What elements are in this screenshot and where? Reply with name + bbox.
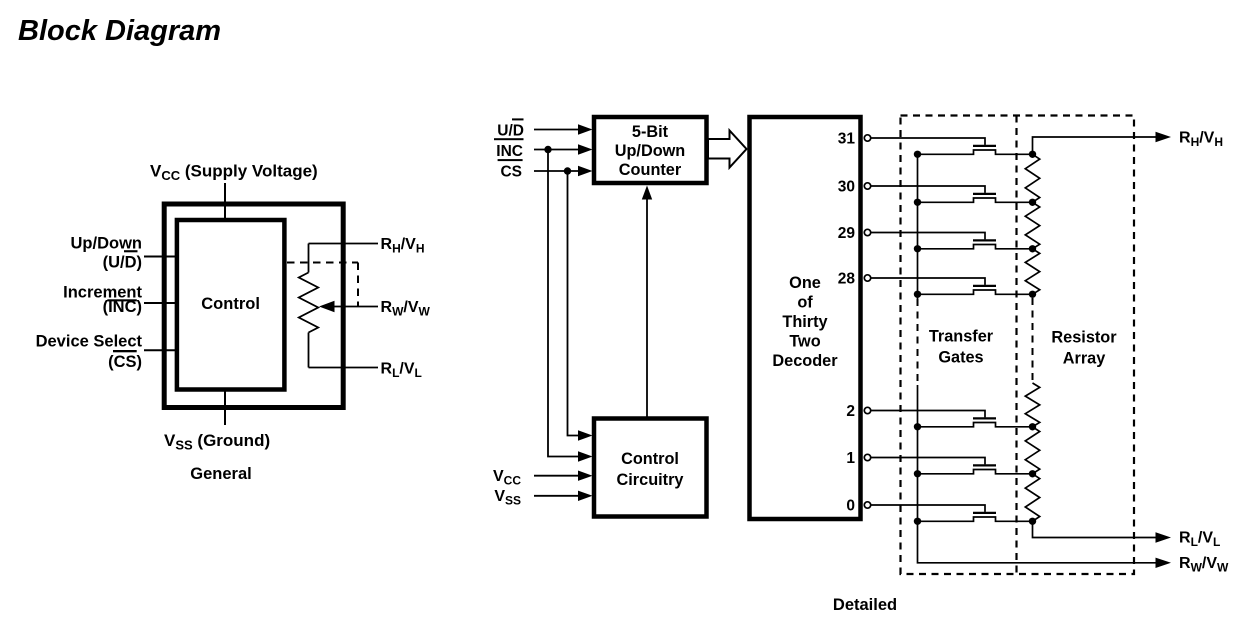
svg-text:Device Select: Device Select xyxy=(36,333,143,351)
5-bit up/down counter box U1 xyxy=(594,117,707,183)
junction dot CS xyxy=(564,167,571,174)
svg-text:Resistor: Resistor xyxy=(1051,329,1117,347)
transfer gate Q0 xyxy=(973,512,996,514)
inner box Control xyxy=(177,220,285,390)
junction dot gate-line 28 xyxy=(914,291,921,298)
Vcc wire xyxy=(534,475,579,477)
svg-text:CS: CS xyxy=(500,164,522,181)
CS pin wire xyxy=(144,349,176,351)
Vss wire xyxy=(534,495,579,497)
U/D wire into counter xyxy=(534,129,579,131)
svg-text:(CS): (CS) xyxy=(108,353,142,371)
junction dot gate-line 30 xyxy=(914,199,921,206)
svg-text:Detailed: Detailed xyxy=(833,596,897,614)
Increment (INC) label xyxy=(63,284,142,317)
svg-text:Two: Two xyxy=(789,333,820,351)
potentiometer resistor (left) xyxy=(308,244,310,273)
control circuitry box U2 xyxy=(594,419,707,517)
transfer gate Q30 xyxy=(973,193,996,195)
svg-text:28: 28 xyxy=(838,271,856,288)
svg-text:INC: INC xyxy=(496,143,523,160)
svg-text:Counter: Counter xyxy=(619,161,682,179)
junction dot resistor tap 2 xyxy=(1029,423,1036,430)
svg-text:30: 30 xyxy=(838,179,855,196)
Transfer Gates label xyxy=(929,328,994,367)
gate control wire 2 xyxy=(871,411,985,418)
junction dot resistor tap 1 xyxy=(1029,470,1036,477)
junction dot resistor tap 30 xyxy=(1029,199,1036,206)
Device Select (CS) label xyxy=(36,333,143,372)
gate control wire 29 xyxy=(871,233,985,240)
INC branch wire to control circuitry xyxy=(548,150,579,457)
RH output wire xyxy=(1033,137,1156,154)
Resistor Array label xyxy=(1051,329,1117,368)
bus arrow counter to decoder xyxy=(708,131,747,168)
svg-text:Up/Down: Up/Down xyxy=(615,142,686,160)
junction dot gate-line 2 xyxy=(914,423,921,430)
svg-text:Gates: Gates xyxy=(938,349,983,367)
svg-text:5-Bit: 5-Bit xyxy=(632,123,669,141)
svg-text:Array: Array xyxy=(1063,350,1106,368)
svg-text:Up/Down: Up/Down xyxy=(71,234,143,252)
gate control wire 30 xyxy=(871,186,985,193)
INC pin wire xyxy=(144,302,176,304)
svg-text:0: 0 xyxy=(846,498,855,515)
svg-text:Circuitry: Circuitry xyxy=(617,471,684,489)
svg-text:of: of xyxy=(797,294,813,312)
CS branch wire to control circuitry xyxy=(568,171,580,436)
dashed divider xyxy=(1015,116,1017,575)
junction dot resistor tap 31 xyxy=(1029,151,1036,158)
transfer gate Q2 xyxy=(973,417,996,419)
transfer gate Q1 xyxy=(973,464,996,466)
CS wire into counter xyxy=(534,170,579,172)
resistor array continuation (dashed) xyxy=(1032,298,1034,381)
svg-text:Block Diagram: Block Diagram xyxy=(18,15,221,47)
svg-text:Transfer: Transfer xyxy=(929,328,994,346)
dashed wiper control link xyxy=(287,263,358,307)
RL output wire xyxy=(1033,521,1156,537)
junction dot resistor tap 28 xyxy=(1029,291,1036,298)
svg-text:Control: Control xyxy=(201,295,260,313)
gate control wire 28 xyxy=(871,278,985,285)
Vss pin wire xyxy=(224,390,226,425)
junction dot gate-line 31 xyxy=(914,151,921,158)
Up/Down (U/D) label xyxy=(71,234,143,271)
one of thirty two decoder box U3 xyxy=(750,117,861,519)
svg-text:U/D: U/D xyxy=(497,122,524,139)
transfer gate common wire (lower) + RW output wire xyxy=(918,385,1156,563)
svg-text:Decoder: Decoder xyxy=(772,352,838,370)
svg-text:Control: Control xyxy=(621,450,679,468)
junction dot gate-line 1 xyxy=(914,470,921,477)
junction dot resistor tap 0 xyxy=(1029,518,1036,525)
svg-text:(U/D): (U/D) xyxy=(103,254,142,272)
U/D pin wire xyxy=(144,256,176,258)
svg-text:1: 1 xyxy=(846,450,855,467)
Vcc pin wire xyxy=(224,183,226,220)
RH wire xyxy=(309,243,379,245)
svg-text:Thirty: Thirty xyxy=(782,313,827,331)
gate control wire 1 xyxy=(871,458,985,465)
dashed region transfer gates / resistor array xyxy=(901,116,1135,575)
INC wire into counter xyxy=(534,149,579,151)
transfer gate common wire continuation (dashed) xyxy=(917,299,919,385)
resistor array segments xyxy=(1025,154,1039,202)
gate control wire 31 xyxy=(871,138,985,145)
RL wire xyxy=(309,367,379,369)
svg-text:2: 2 xyxy=(846,403,855,420)
transfer gate Q28 xyxy=(973,285,996,287)
wiper arrow RW wire xyxy=(332,306,378,308)
wire control circuitry to counter xyxy=(646,198,648,420)
outer box (device boundary) xyxy=(164,204,343,408)
transfer gate common wire (upper) xyxy=(917,154,919,299)
svg-text:31: 31 xyxy=(838,131,856,148)
junction dot gate-line 29 xyxy=(914,245,921,252)
junction dot gate-line 0 xyxy=(914,518,921,525)
junction dot resistor tap 29 xyxy=(1029,245,1036,252)
gate control wire 0 xyxy=(871,505,985,512)
svg-text:29: 29 xyxy=(838,225,856,242)
transfer gate Q31 xyxy=(973,145,996,147)
junction dot INC xyxy=(544,146,551,153)
svg-text:General: General xyxy=(190,465,251,483)
svg-text:One: One xyxy=(789,274,821,292)
transfer gate Q29 xyxy=(973,239,996,241)
